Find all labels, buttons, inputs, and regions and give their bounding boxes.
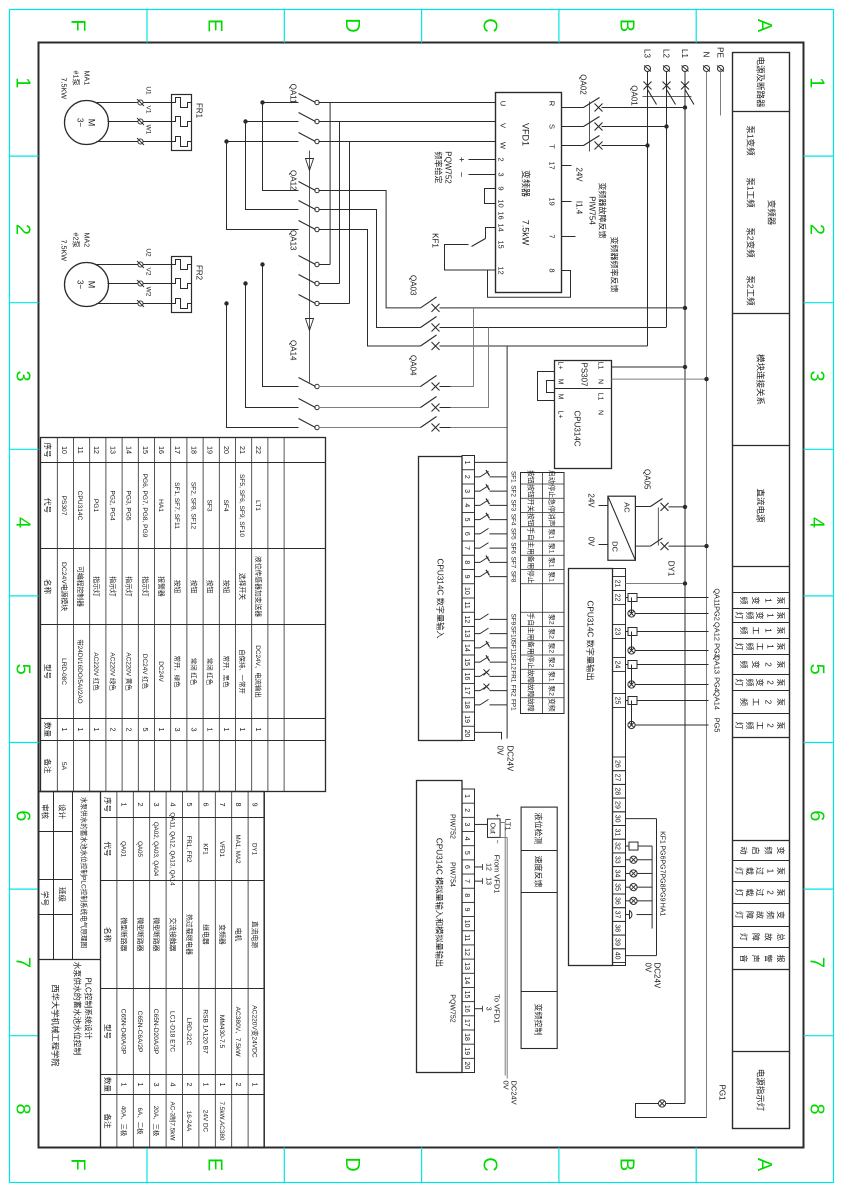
svg-text:5: 5 bbox=[185, 802, 194, 806]
svg-text:M: M bbox=[86, 280, 96, 288]
relay contact KF1 to VFD bbox=[430, 227, 495, 270]
svg-text:D: D bbox=[340, 18, 362, 32]
svg-text:泵2: 泵2 bbox=[547, 685, 555, 696]
svg-text:1: 1 bbox=[254, 727, 263, 731]
svg-text:CPU314C 模拟量输入和模拟量输出: CPU314C 模拟量输入和模拟量输出 bbox=[434, 837, 444, 966]
breaker QA03 bbox=[408, 275, 687, 350]
svg-text:数量: 数量 bbox=[103, 1077, 113, 1093]
svg-text:2: 2 bbox=[11, 223, 33, 234]
svg-text:水泵供水的蓄水池水位控制: 水泵供水的蓄水池水位控制 bbox=[72, 961, 82, 1055]
svg-text:频: 频 bbox=[738, 626, 748, 634]
svg-text:2: 2 bbox=[496, 157, 505, 161]
VFD jumper 9-10 bbox=[484, 188, 495, 203]
svg-text:2: 2 bbox=[765, 723, 774, 728]
svg-text:32: 32 bbox=[613, 842, 620, 850]
svg-text:电源指示灯: 电源指示灯 bbox=[755, 1068, 765, 1111]
svg-text:变频器: 变频器 bbox=[766, 199, 776, 225]
svg-text:QA12: QA12 bbox=[712, 622, 721, 641]
motor MA1 bbox=[59, 70, 108, 144]
svg-text:故: 故 bbox=[763, 933, 773, 941]
svg-text:变: 变 bbox=[755, 678, 765, 686]
svg-text:2: 2 bbox=[135, 802, 144, 806]
svg-text:29: 29 bbox=[613, 801, 620, 809]
svg-text:电源及断路器: 电源及断路器 bbox=[755, 56, 765, 108]
svg-text:1: 1 bbox=[463, 460, 470, 464]
thermal relay FR2 bbox=[171, 256, 203, 312]
svg-text:载: 载 bbox=[744, 888, 754, 896]
svg-text:3: 3 bbox=[484, 1006, 491, 1010]
svg-text:音: 音 bbox=[738, 954, 748, 962]
svg-text:12: 12 bbox=[92, 446, 101, 454]
svg-text:泵1: 泵1 bbox=[547, 528, 555, 539]
svg-text:R: R bbox=[547, 100, 556, 106]
svg-text:CPU314C: CPU314C bbox=[76, 490, 83, 520]
breaker QA05 bbox=[635, 469, 708, 577]
svg-text:15: 15 bbox=[463, 658, 470, 666]
svg-text:1: 1 bbox=[765, 613, 774, 618]
svg-text:KF1: KF1 bbox=[658, 831, 665, 844]
svg-text:SF7: SF7 bbox=[509, 556, 516, 568]
svg-text:S: S bbox=[547, 123, 556, 128]
svg-text:20: 20 bbox=[463, 729, 470, 737]
svg-text:西华大学机械工程学院: 西华大学机械工程学院 bbox=[50, 984, 60, 1066]
svg-text:−: − bbox=[493, 839, 500, 843]
svg-text:V: V bbox=[498, 122, 507, 127]
svg-text:18: 18 bbox=[463, 700, 470, 708]
svg-text:VFD1: VFD1 bbox=[217, 841, 224, 857]
svg-text:20: 20 bbox=[463, 1061, 470, 1069]
wire motor1 junction drops bbox=[262, 101, 298, 103]
svg-text:SF4: SF4 bbox=[221, 499, 228, 511]
svg-text:PG4: PG4 bbox=[712, 677, 721, 692]
svg-text:13: 13 bbox=[463, 962, 470, 970]
svg-text:2: 2 bbox=[763, 699, 772, 704]
digital output terminals 21-40 bbox=[612, 568, 625, 965]
svg-text:1: 1 bbox=[765, 868, 774, 873]
svg-text:泵: 泵 bbox=[776, 888, 785, 896]
svg-text:3: 3 bbox=[152, 802, 161, 806]
svg-text:泵2: 泵2 bbox=[547, 614, 555, 625]
svg-text:7: 7 bbox=[547, 234, 556, 238]
svg-text:5: 5 bbox=[11, 663, 33, 674]
svg-text:SF10: SF10 bbox=[509, 625, 516, 641]
svg-text:CPU314C 数字量输入: CPU314C 数字量输入 bbox=[435, 558, 445, 638]
svg-text:8: 8 bbox=[805, 1103, 827, 1114]
svg-text:PS307: PS307 bbox=[579, 362, 588, 387]
svg-text:PG1: PG1 bbox=[92, 498, 99, 512]
svg-text:序号: 序号 bbox=[103, 797, 113, 812]
stubs From VFD1 12 13 bbox=[474, 854, 501, 893]
svg-text:2: 2 bbox=[234, 1082, 243, 1086]
svg-text:SF5: SF5 bbox=[509, 528, 516, 540]
svg-text:5: 5 bbox=[463, 850, 470, 854]
svg-text:QA05: QA05 bbox=[135, 841, 142, 857]
svg-text:24V DC: 24V DC bbox=[201, 1109, 208, 1132]
svg-text:泵1: 泵1 bbox=[547, 571, 555, 582]
svg-text:变: 变 bbox=[776, 846, 786, 854]
svg-text:工: 工 bbox=[751, 626, 760, 634]
svg-text:PIW752: PIW752 bbox=[448, 814, 455, 839]
svg-text:频: 频 bbox=[738, 660, 748, 668]
svg-text:泵: 泵 bbox=[776, 596, 785, 604]
svg-text:−: − bbox=[456, 171, 466, 176]
svg-text:11: 11 bbox=[463, 934, 470, 941]
svg-text:泵1变频: 泵1变频 bbox=[745, 125, 755, 156]
svg-text:PG9: PG9 bbox=[658, 887, 665, 901]
svg-text:8: 8 bbox=[11, 1103, 33, 1114]
svg-text:24: 24 bbox=[613, 660, 620, 668]
svg-text:7.5KW: 7.5KW bbox=[59, 77, 68, 99]
svg-text:23: 23 bbox=[613, 627, 620, 635]
wires motor MA2 with terminals U2 V2 W2 bbox=[96, 248, 171, 307]
svg-text:1: 1 bbox=[250, 1082, 259, 1086]
svg-text:QA03: QA03 bbox=[408, 275, 417, 296]
svg-text:声: 声 bbox=[751, 954, 761, 962]
supply terminal L1 bbox=[680, 49, 689, 71]
svg-text:4: 4 bbox=[463, 503, 470, 507]
supply terminal L3 bbox=[642, 49, 651, 71]
svg-text:HA1: HA1 bbox=[157, 499, 164, 512]
svg-text:5A: 5A bbox=[59, 761, 66, 770]
svg-text:频: 频 bbox=[763, 846, 773, 854]
input common rail bbox=[506, 346, 508, 739]
svg-text:QA02, QA03, QA04: QA02, QA03, QA04 bbox=[152, 821, 159, 876]
svg-text:W: W bbox=[498, 141, 507, 149]
svg-text:FR1: FR1 bbox=[194, 102, 203, 118]
svg-text:泵2: 泵2 bbox=[547, 656, 555, 667]
wire N bus bbox=[705, 71, 707, 1117]
svg-text:LT1: LT1 bbox=[254, 500, 261, 511]
svg-text:B: B bbox=[615, 18, 637, 31]
BOM table items 10-22 bbox=[40, 437, 325, 791]
wire PS307 to CPU jumpers bbox=[537, 371, 554, 400]
svg-text:报: 报 bbox=[776, 954, 786, 962]
svg-text:灯: 灯 bbox=[734, 642, 744, 650]
svg-text:PQW752: PQW752 bbox=[448, 994, 455, 1023]
PLC block CPU314C digital input bbox=[418, 456, 462, 740]
svg-text:40: 40 bbox=[613, 951, 620, 959]
supply terminal N bbox=[701, 51, 710, 71]
svg-text:10: 10 bbox=[496, 199, 505, 207]
svg-text:SF1: SF1 bbox=[509, 471, 516, 483]
svg-text:12: 12 bbox=[463, 615, 470, 623]
zone label 电源及断路器 bbox=[755, 56, 765, 108]
svg-text:DC: DC bbox=[610, 541, 619, 552]
svg-text:20: 20 bbox=[221, 446, 230, 454]
svg-text:PG1: PG1 bbox=[717, 1084, 726, 1101]
svg-text:B: B bbox=[615, 1157, 637, 1170]
svg-text:载: 载 bbox=[744, 867, 754, 875]
svg-text:速度反馈: 速度反馈 bbox=[533, 855, 543, 887]
digital input terminals 1-20 bbox=[462, 455, 475, 740]
svg-text:3: 3 bbox=[173, 727, 182, 731]
svg-text:灯: 灯 bbox=[734, 611, 744, 619]
wire L1 bus bbox=[684, 71, 686, 1103]
svg-text:泵2: 泵2 bbox=[547, 628, 555, 639]
svg-text:N: N bbox=[596, 378, 603, 383]
svg-text:QA14: QA14 bbox=[712, 691, 721, 710]
svg-text:MA1: MA1 bbox=[82, 70, 91, 85]
level sensor LT1 output box bbox=[474, 813, 512, 843]
svg-text:F: F bbox=[66, 19, 88, 31]
svg-text:9: 9 bbox=[463, 574, 470, 578]
svg-text:1: 1 bbox=[92, 727, 101, 731]
svg-text:1: 1 bbox=[805, 77, 827, 88]
wire VFD output V bbox=[318, 120, 495, 122]
svg-text:13: 13 bbox=[108, 446, 117, 454]
PLC block CPU314C analog I/O bbox=[416, 780, 462, 1072]
PLC block CPU314C digital output bbox=[568, 568, 612, 965]
svg-text:U2: U2 bbox=[144, 248, 151, 257]
svg-text:M: M bbox=[86, 118, 96, 126]
svg-text:U: U bbox=[498, 100, 507, 105]
svg-text:MA2: MA2 bbox=[82, 232, 91, 247]
svg-text:38: 38 bbox=[613, 924, 620, 932]
svg-text:SF5, SF6, SF9, SF10: SF5, SF6, SF9, SF10 bbox=[238, 473, 245, 536]
DY1 DC stubs 24V 0V bbox=[586, 493, 607, 547]
svg-text:8: 8 bbox=[547, 268, 556, 272]
svg-text:24V: 24V bbox=[574, 167, 583, 182]
svg-text:1: 1 bbox=[157, 727, 166, 731]
svg-text:6: 6 bbox=[11, 810, 33, 821]
svg-text:DY1: DY1 bbox=[250, 842, 257, 855]
svg-text:C: C bbox=[478, 1157, 500, 1171]
mechanical interlock QA11-QA14 bbox=[305, 150, 313, 382]
svg-text:QA05: QA05 bbox=[642, 469, 651, 490]
BOM table items 1-9 bbox=[38, 791, 264, 1147]
breaker QA02 bbox=[561, 74, 687, 151]
svg-text:泵2变频: 泵2变频 bbox=[745, 227, 755, 258]
svg-text:6: 6 bbox=[201, 802, 210, 806]
svg-text:频: 频 bbox=[744, 678, 754, 686]
svg-text:过: 过 bbox=[755, 888, 765, 896]
svg-text:3~: 3~ bbox=[75, 279, 84, 288]
svg-text:7: 7 bbox=[463, 546, 470, 550]
svg-text:频: 频 bbox=[744, 611, 754, 619]
wire PS307 L1 to bus bbox=[611, 364, 687, 368]
contactor QA12 bbox=[288, 170, 319, 232]
svg-text:0V: 0V bbox=[495, 745, 504, 755]
svg-text:E: E bbox=[203, 18, 225, 31]
svg-text:QA01: QA01 bbox=[119, 841, 126, 857]
svg-text:DC24V: DC24V bbox=[509, 1080, 518, 1104]
wire VFD output W bbox=[318, 140, 495, 142]
svg-text:泵1: 泵1 bbox=[547, 557, 555, 568]
svg-text:QA01: QA01 bbox=[629, 85, 638, 106]
svg-text:N: N bbox=[701, 51, 710, 57]
svg-text:7.5kW: 7.5kW bbox=[520, 219, 530, 245]
label 变频器故障反馈 PIW754 bbox=[587, 182, 607, 238]
svg-text:总: 总 bbox=[776, 933, 786, 941]
svg-text:5: 5 bbox=[140, 727, 149, 731]
svg-text:10: 10 bbox=[59, 446, 68, 454]
svg-text:1: 1 bbox=[765, 644, 774, 649]
stub To VFD1 3 bbox=[474, 994, 501, 1023]
svg-text:13: 13 bbox=[484, 877, 491, 885]
pump indicator cells bbox=[732, 592, 789, 737]
svg-text:液位检测: 液位检测 bbox=[533, 812, 543, 844]
indicator lamp PG1 loop bbox=[635, 1084, 726, 1117]
svg-text:M: M bbox=[556, 393, 563, 399]
svg-text:V2: V2 bbox=[144, 267, 151, 275]
svg-text:8: 8 bbox=[463, 560, 470, 564]
svg-text:QA02: QA02 bbox=[578, 74, 587, 95]
svg-text:7.5KW: 7.5KW bbox=[59, 239, 68, 261]
svg-text:2: 2 bbox=[463, 808, 470, 812]
svg-text:I1.4: I1.4 bbox=[574, 200, 583, 214]
svg-text:代号: 代号 bbox=[103, 841, 113, 856]
svg-text:A: A bbox=[752, 1157, 774, 1171]
svg-text:17: 17 bbox=[463, 686, 470, 694]
svg-text:PG6, PG7, PG8, PG9: PG6, PG7, PG8, PG9 bbox=[140, 473, 147, 537]
svg-text:泵1工频: 泵1工频 bbox=[745, 177, 755, 208]
svg-text:灯: 灯 bbox=[734, 867, 744, 875]
svg-text:PG2: PG2 bbox=[712, 606, 721, 621]
svg-text:启: 启 bbox=[751, 846, 761, 854]
svg-text:C: C bbox=[478, 18, 500, 32]
VFD U1 frequency converter bbox=[495, 92, 561, 292]
svg-text:泵1: 泵1 bbox=[547, 671, 555, 682]
svg-text:4: 4 bbox=[463, 836, 470, 840]
svg-text:19: 19 bbox=[463, 715, 470, 723]
svg-text:PG6: PG6 bbox=[658, 845, 665, 859]
svg-text:PLC控制系统设计: PLC控制系统设计 bbox=[83, 977, 93, 1039]
svg-text:3: 3 bbox=[189, 727, 198, 731]
svg-text:13: 13 bbox=[463, 629, 470, 637]
svg-text:9: 9 bbox=[463, 907, 470, 911]
svg-text:灯: 灯 bbox=[734, 721, 744, 729]
svg-text:泵: 泵 bbox=[776, 626, 785, 634]
svg-text:LRD-08C: LRD-08C bbox=[59, 658, 66, 685]
svg-text:QA13: QA13 bbox=[288, 230, 297, 251]
svg-text:带24DI/16DO/5AI/2AO: 带24DI/16DO/5AI/2AO bbox=[76, 639, 84, 703]
breaker QA01 bbox=[629, 81, 694, 106]
svg-text:FR1: FR1 bbox=[509, 670, 516, 683]
svg-text:W1: W1 bbox=[144, 124, 151, 134]
svg-text:名称: 名称 bbox=[43, 579, 53, 594]
svg-text:SF12: SF12 bbox=[509, 654, 516, 670]
svg-text:#2泵: #2泵 bbox=[71, 232, 80, 247]
svg-text:6: 6 bbox=[463, 865, 470, 869]
svg-text:4: 4 bbox=[168, 802, 177, 806]
svg-text:2: 2 bbox=[124, 727, 133, 731]
svg-text:LC1-D18 E7C: LC1-D18 E7C bbox=[168, 1010, 175, 1051]
svg-text:泵: 泵 bbox=[776, 611, 785, 619]
svg-text:设计: 设计 bbox=[57, 804, 67, 819]
wire VFD frequency setpoint + - bbox=[456, 156, 495, 176]
svg-text:12: 12 bbox=[484, 863, 491, 871]
svg-text:27: 27 bbox=[613, 773, 620, 781]
wire QA14 down-feeds bbox=[224, 262, 298, 427]
svg-text:变: 变 bbox=[755, 611, 765, 619]
svg-text:7: 7 bbox=[463, 879, 470, 883]
svg-text:33: 33 bbox=[613, 855, 620, 863]
svg-text:8: 8 bbox=[234, 802, 243, 806]
svg-text:PG5: PG5 bbox=[712, 717, 721, 732]
svg-text:QA14: QA14 bbox=[288, 340, 297, 361]
svg-text:7: 7 bbox=[217, 802, 226, 806]
zone label 变频器 group bbox=[745, 125, 776, 306]
svg-text:19: 19 bbox=[205, 446, 214, 454]
svg-text:班级: 班级 bbox=[57, 887, 67, 902]
svg-text:SF3: SF3 bbox=[509, 499, 516, 511]
svg-text:9: 9 bbox=[250, 802, 259, 806]
svg-text:1: 1 bbox=[59, 727, 68, 731]
svg-text:QA11: QA11 bbox=[712, 588, 721, 606]
svg-text:E: E bbox=[203, 1157, 225, 1170]
svg-text:16: 16 bbox=[463, 1004, 470, 1012]
svg-text:N: N bbox=[596, 409, 603, 414]
wire QA12 down-feeds bbox=[224, 100, 298, 229]
wire QA04 outputs tie to QA03 feeders bbox=[450, 307, 473, 386]
svg-text:CPU314C: CPU314C bbox=[572, 410, 581, 446]
svg-text:17: 17 bbox=[463, 1018, 470, 1026]
svg-text:变频器频率反馈: 变频器频率反馈 bbox=[609, 236, 619, 292]
wire QA12 to QA03 bbox=[318, 190, 420, 346]
svg-text:2: 2 bbox=[805, 223, 827, 234]
title block bbox=[38, 791, 100, 1147]
svg-text:3: 3 bbox=[496, 172, 505, 176]
svg-text:31: 31 bbox=[613, 828, 620, 836]
svg-text:35: 35 bbox=[613, 883, 620, 891]
svg-text:24V: 24V bbox=[586, 493, 595, 508]
svg-text:QA13: QA13 bbox=[712, 655, 721, 674]
wire output 21 to L1 bbox=[625, 581, 687, 585]
svg-text:PG8: PG8 bbox=[658, 873, 665, 887]
svg-text:36: 36 bbox=[613, 896, 620, 904]
svg-text:MM430-7.5: MM430-7.5 bbox=[217, 1014, 224, 1048]
svg-text:频率给定: 频率给定 bbox=[433, 151, 443, 183]
power supply PS307 / CPU314C bbox=[554, 360, 611, 468]
svg-text:数量: 数量 bbox=[43, 722, 53, 737]
svg-text:灯: 灯 bbox=[734, 911, 744, 919]
svg-text:FR2: FR2 bbox=[194, 264, 203, 280]
svg-text:16: 16 bbox=[496, 211, 505, 219]
svg-text:15: 15 bbox=[496, 240, 505, 248]
wire input terminal 20 to DC24V 0V bbox=[474, 732, 514, 772]
svg-text:22: 22 bbox=[613, 593, 620, 601]
svg-text:11: 11 bbox=[463, 601, 470, 608]
label PQW752 频率给定 bbox=[433, 151, 452, 184]
svg-text:+: + bbox=[493, 813, 500, 817]
svg-text:From VFD1: From VFD1 bbox=[492, 854, 501, 893]
svg-text:工: 工 bbox=[755, 721, 764, 729]
wire QA14 to QA04 bbox=[318, 386, 420, 427]
svg-text:To VFD1: To VFD1 bbox=[492, 994, 501, 1023]
wire L3 bus bbox=[646, 71, 648, 346]
svg-text:1: 1 bbox=[221, 727, 230, 731]
svg-text:L1: L1 bbox=[680, 49, 689, 58]
svg-text:6: 6 bbox=[805, 810, 827, 821]
zone label 直流电源 bbox=[755, 488, 765, 523]
svg-text:28: 28 bbox=[613, 787, 620, 795]
svg-text:3~: 3~ bbox=[75, 117, 84, 126]
wire QA03 outputs to buses bbox=[450, 306, 685, 308]
svg-text:2: 2 bbox=[108, 727, 117, 731]
svg-text:1: 1 bbox=[763, 628, 772, 633]
svg-text:1: 1 bbox=[205, 727, 214, 731]
svg-text:SF9: SF9 bbox=[509, 613, 516, 625]
svg-text:泵: 泵 bbox=[776, 678, 785, 686]
svg-text:变频器: 变频器 bbox=[520, 169, 531, 196]
svg-text:型号: 型号 bbox=[103, 1024, 112, 1039]
svg-text:10: 10 bbox=[463, 586, 470, 594]
svg-text:VFD1: VFD1 bbox=[520, 122, 530, 145]
svg-text:L3: L3 bbox=[642, 49, 651, 58]
svg-text:PIW754: PIW754 bbox=[448, 862, 455, 887]
svg-text:QA11: QA11 bbox=[288, 83, 297, 103]
svg-text:15: 15 bbox=[463, 990, 470, 998]
